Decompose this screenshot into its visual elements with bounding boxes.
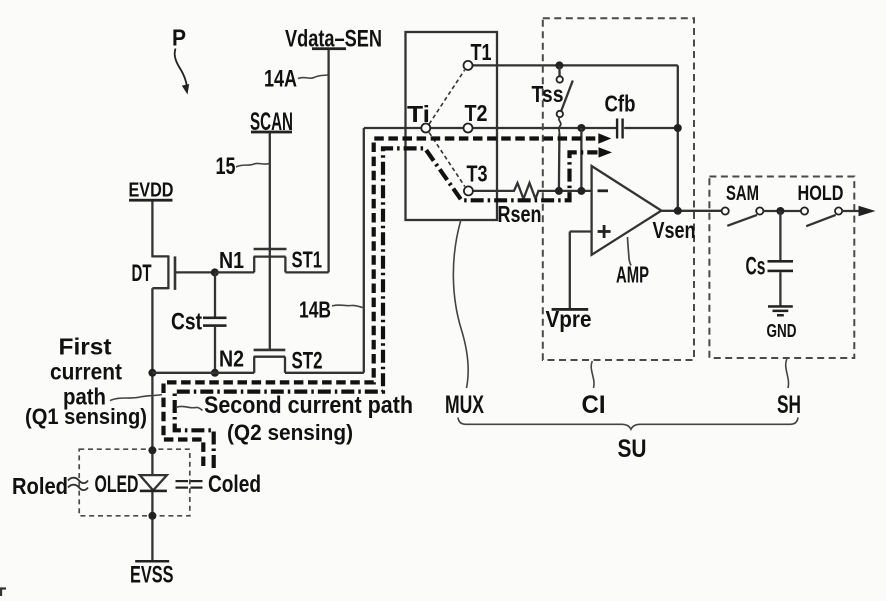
- svg-text:14A: 14A: [264, 66, 297, 93]
- terminal T3: [464, 161, 488, 196]
- junction dot minus node top: [577, 124, 585, 132]
- wire SCAN vertical: [269, 133, 271, 350]
- svg-text:(Q1 sensing): (Q1 sensing): [25, 404, 147, 429]
- node N2: [148, 346, 244, 377]
- svg-text:Rsen: Rsen: [498, 201, 542, 227]
- svg-text:14B: 14B: [299, 297, 331, 323]
- svg-text:CI: CI: [582, 391, 606, 419]
- net label Vdata-SEN: [285, 26, 382, 53]
- label 14B: [299, 297, 363, 323]
- svg-text:GND: GND: [767, 321, 797, 341]
- svg-text:T3: T3: [467, 161, 488, 187]
- transistor DT: [152, 255, 214, 290]
- junction dot Cs top: [776, 207, 784, 215]
- switch HOLD: [798, 182, 844, 226]
- op-amp U1 AMP: [592, 166, 662, 255]
- svg-text:Coled: Coled: [208, 471, 261, 498]
- svg-text:SU: SU: [618, 435, 647, 463]
- capacitor Cs: [746, 211, 794, 306]
- arrowhead Q2: [599, 147, 613, 157]
- second current path Q2 (thick dash-dot): [175, 148, 598, 468]
- svg-text:T1: T1: [471, 39, 492, 65]
- capacitor Coled marks: [176, 480, 203, 489]
- label 15: [216, 153, 270, 180]
- wire N2 row: [152, 372, 254, 374]
- OLED dashed box: [79, 449, 190, 516]
- wire SAM to HOLD: [763, 210, 801, 212]
- svg-text:SAM: SAM: [726, 182, 759, 205]
- arrowhead Q1: [598, 133, 611, 143]
- svg-text:Vpre: Vpre: [546, 306, 592, 332]
- svg-text:Vsen: Vsen: [653, 217, 696, 243]
- switch Tss: [557, 65, 573, 190]
- ground GND: [767, 305, 797, 341]
- svg-text:OLED: OLED: [95, 471, 139, 498]
- SH box: [709, 177, 854, 359]
- wire output arrow: [842, 206, 875, 216]
- svg-text:Second current path: Second current path: [204, 392, 413, 419]
- wire op-amp output: [661, 210, 721, 212]
- junction dot OLED cathode: [148, 512, 156, 520]
- svg-text:AMP: AMP: [616, 262, 649, 288]
- brace SU: [458, 418, 798, 464]
- transistor ST2: [254, 350, 286, 373]
- label Second current path (Q2 sensing): [176, 392, 413, 445]
- svg-text:SH: SH: [777, 391, 801, 419]
- junction dot OLED anode: [148, 446, 156, 454]
- svg-text:ST2: ST2: [292, 348, 323, 375]
- power EVSS: [130, 560, 174, 589]
- transistor ST1: [254, 249, 329, 272]
- label CI with leader: [582, 361, 606, 419]
- wire right feedback vertical: [677, 65, 679, 210]
- capacitor Cst: [203, 272, 227, 372]
- junction dot Cfb right: [674, 124, 682, 132]
- junction dot T3 line b: [577, 187, 585, 195]
- terminal T1: [464, 39, 492, 70]
- wire sense line vertical 14B: [363, 128, 365, 373]
- capacitor Cfb: [605, 91, 678, 139]
- svg-text:Cfb: Cfb: [605, 91, 636, 117]
- label SH with leader: [777, 359, 801, 419]
- svg-text:HOLD: HOLD: [798, 182, 844, 205]
- svg-text:Roled: Roled: [12, 473, 68, 499]
- label P: [172, 25, 189, 95]
- svg-text:current: current: [50, 359, 122, 385]
- terminal T2: [464, 100, 488, 133]
- wire minus node vertical: [580, 128, 582, 191]
- label 14A: [264, 66, 328, 93]
- svg-text:ST1: ST1: [292, 247, 323, 273]
- wire plus input: [570, 230, 592, 232]
- net label SCAN: [250, 108, 293, 136]
- junction dot T1/Tss: [555, 61, 563, 69]
- wire Vdata-SEN vertical: [327, 50, 329, 273]
- diode OLED: [95, 471, 167, 498]
- svg-text:N1: N1: [219, 247, 244, 273]
- MUX box: [406, 32, 498, 220]
- svg-text:Cst: Cst: [171, 309, 202, 336]
- node N1: [211, 247, 244, 276]
- CI box: [543, 18, 694, 360]
- svg-text:DT: DT: [132, 260, 152, 287]
- svg-text:MUX: MUX: [445, 391, 484, 419]
- label First current path (Q1 sensing): [25, 334, 162, 430]
- svg-text:Ti: Ti: [407, 101, 430, 127]
- svg-text:(Q2 sensing): (Q2 sensing): [227, 420, 353, 445]
- junction dot output: [674, 207, 682, 215]
- svg-text:Tss: Tss: [532, 81, 564, 107]
- terminal Ti: [407, 101, 430, 133]
- svg-text:EVDD: EVDD: [129, 180, 174, 202]
- power EVDD: [129, 180, 174, 202]
- svg-text:T2: T2: [465, 100, 488, 126]
- svg-text:P: P: [172, 25, 186, 51]
- svg-text:First: First: [59, 334, 112, 360]
- source Vpre: [546, 232, 592, 333]
- label MUX with leader: [445, 220, 484, 420]
- svg-text:15: 15: [216, 153, 236, 180]
- switch Ti dashed throws: [429, 70, 465, 187]
- label AMP with leader: [616, 237, 649, 288]
- scan artifact bottom-left: [0, 589, 6, 597]
- svg-text:EVSS: EVSS: [130, 562, 174, 589]
- wire N1 row: [215, 271, 254, 273]
- wire EVDD drop: [151, 202, 153, 258]
- junction dot T3 line a: [555, 187, 563, 195]
- switch SAM: [722, 182, 764, 226]
- resistor Roled marks: [68, 478, 88, 490]
- wire T1 line: [468, 64, 678, 66]
- svg-text:Cs: Cs: [746, 253, 766, 281]
- wire Ti common line: [364, 127, 616, 129]
- wire T3 line with resistor Rsen: [468, 183, 591, 199]
- first current path Q1 (thick dashed): [164, 139, 597, 467]
- wire left vertical rail: [151, 288, 153, 561]
- svg-text:N2: N2: [219, 346, 244, 372]
- wire N2 to sense line: [285, 372, 364, 374]
